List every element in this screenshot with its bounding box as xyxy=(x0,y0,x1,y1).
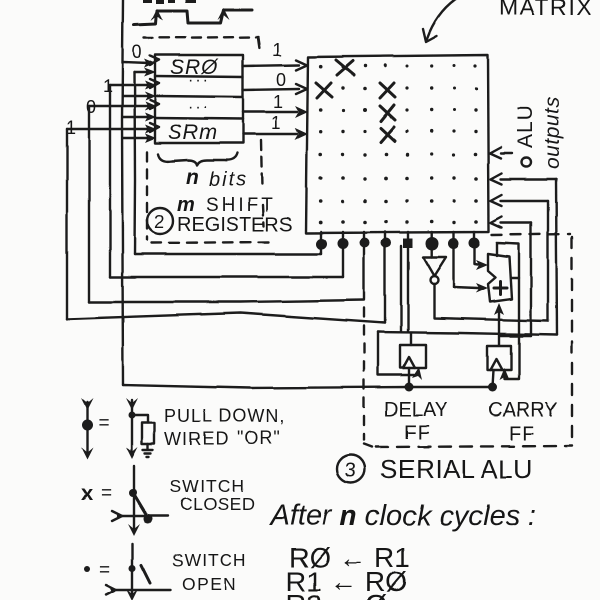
svg-text:SWITCH: SWITCH xyxy=(170,476,245,496)
svg-text:···: ··· xyxy=(188,72,210,89)
wire delay FF top connection xyxy=(410,333,412,345)
svg-text:ALU: ALU xyxy=(514,104,537,148)
wire feedback col1 vertical x=134.5 xyxy=(133,72,136,254)
svg-text:0: 0 xyxy=(276,70,286,90)
pull-down dot col1 xyxy=(320,232,322,254)
ground xyxy=(143,450,153,457)
switch blade closed xyxy=(133,493,148,518)
wire SR input row4 from x=67 xyxy=(67,128,149,130)
wire into SR row4 data xyxy=(123,137,148,139)
svg-text:SRm: SRm xyxy=(168,121,218,144)
wire SR input row2 from x=110 xyxy=(110,84,149,86)
matrix switch closed X row3 col4 xyxy=(380,105,395,121)
carry D input arrow xyxy=(499,368,509,380)
svg-text:=: = xyxy=(98,413,109,434)
svg-text:outputs: outputs xyxy=(541,97,564,169)
ALU output arrow into matrix row5 xyxy=(490,147,512,158)
wire into SR row1 data xyxy=(135,71,149,73)
cut-off text remnant top edge xyxy=(143,0,196,4)
wire feedback loop col3 to SR row3 xyxy=(89,300,364,302)
wire carry FF Q to adder carry-in xyxy=(498,310,500,345)
wire clock rail to FF clocks y=387 xyxy=(123,385,493,388)
svg-text:DELAY: DELAY xyxy=(384,399,448,421)
wire carry FF clock xyxy=(492,370,493,387)
svg-text:···: ··· xyxy=(188,99,210,116)
legend pulldown symbol left xyxy=(86,402,88,455)
pull-down dot col8 xyxy=(473,232,475,263)
svg-text:=: = xyxy=(99,560,110,581)
dashed box serial ALU right xyxy=(571,237,573,443)
shift register box xyxy=(155,55,243,143)
wire SR output row3 to matrix xyxy=(243,111,297,113)
wire feedback loop col2 to SR row2 xyxy=(110,276,343,278)
carry FF clock wedge xyxy=(490,359,502,370)
svg-text:1: 1 xyxy=(103,76,113,96)
wire clock main vertical x=123 xyxy=(122,0,123,385)
svg-text:0: 0 xyxy=(86,97,96,117)
circled 2 xyxy=(147,208,173,234)
wire delay D feed xyxy=(378,332,414,375)
svg-text:R2 ← Ø: R2 ← Ø xyxy=(286,589,387,600)
SR row separator 2 xyxy=(155,96,243,97)
svg-text:2: 2 xyxy=(154,212,164,232)
switch matrix box xyxy=(306,55,489,233)
carry FF U4 xyxy=(487,346,511,370)
wire feedback loop col4 to SR row4 xyxy=(67,313,385,323)
legend open-dot symbol xyxy=(84,566,90,572)
svg-text:CLOSED: CLOSED xyxy=(180,494,255,514)
label o ALU outputs xyxy=(522,158,531,167)
svg-text:1: 1 xyxy=(273,92,283,112)
delay D input arrow xyxy=(412,367,422,380)
dashed box region 2 right xyxy=(258,38,260,52)
resistor R1 xyxy=(132,415,148,449)
brace under SR box xyxy=(158,153,237,165)
switch feed wire xyxy=(118,515,168,517)
dashed box serial ALU top xyxy=(492,234,570,235)
legend pulldown circuit xyxy=(131,400,133,452)
wire feedback loop col1 to SR row1 xyxy=(135,253,322,255)
annotation arrow to matrix xyxy=(427,0,455,39)
svg-text:After n clock cycles :: After n clock cycles : xyxy=(268,500,536,532)
ALU output arrow into matrix row7 xyxy=(491,195,548,206)
wire SR output row4 to matrix xyxy=(243,133,297,135)
wire carry feedback vertical x=531 xyxy=(530,223,532,336)
SR row separator 3 xyxy=(155,118,243,119)
wire carry Q to matrix row8 loop xyxy=(500,335,531,337)
svg-text:=: = xyxy=(101,483,112,504)
clock edge arrow 1 xyxy=(151,9,163,21)
pull-down dot col4 xyxy=(384,232,386,323)
svg-text:1: 1 xyxy=(271,113,281,133)
svg-text:0: 0 xyxy=(132,42,142,62)
svg-text:SWITCH: SWITCH xyxy=(172,550,247,570)
wire delay line horizontal y=333 xyxy=(378,332,557,335)
ALU output arrow into matrix row6 xyxy=(491,173,556,184)
svg-text:FF: FF xyxy=(404,422,430,444)
switch feed wire xyxy=(112,589,170,591)
wire feedback col4 vertical x=67 xyxy=(66,129,68,319)
dashed box serial ALU bottom xyxy=(376,446,572,447)
dashed box region 2 top xyxy=(144,37,258,38)
switch blade open xyxy=(141,565,150,583)
SR row separator 1 xyxy=(155,76,243,77)
wire adder sum output stub xyxy=(512,277,519,279)
svg-text:"OR": "OR" xyxy=(237,428,281,448)
pull-down dot col5 xyxy=(407,232,409,332)
SR clock chevron row3 xyxy=(150,100,159,109)
ALU output arrow into matrix row8 xyxy=(491,217,531,228)
wire feedback col3 vertical x=89 xyxy=(88,106,90,302)
delay FF clock wedge xyxy=(403,357,415,368)
wire into SR row2 data xyxy=(123,95,148,97)
wire SR input row3 from x=89 xyxy=(89,105,149,107)
svg-text:WIRED: WIRED xyxy=(164,429,229,449)
wire not feedback vertical x=548 xyxy=(547,201,549,321)
svg-text:n: n xyxy=(186,166,199,189)
switch open symbol xyxy=(131,544,133,594)
dashed box region 2 bottom xyxy=(151,242,270,243)
wire into SR row3 data xyxy=(123,116,148,118)
dashed box region 2 left xyxy=(146,152,148,240)
svg-text:x: x xyxy=(81,482,93,505)
inverter U1 xyxy=(423,257,446,276)
adder plus sign xyxy=(494,282,507,295)
svg-text:REGISTERS: REGISTERS xyxy=(177,214,293,236)
svg-text:SERIAL ALU: SERIAL ALU xyxy=(380,454,533,484)
matrix switch closed X row2 col1 xyxy=(316,83,332,98)
matrix switch closed X row1 col2 xyxy=(336,60,354,75)
pull-down dot col7 xyxy=(452,232,454,287)
svg-text:bits: bits xyxy=(209,169,248,191)
svg-text:CARRY: CARRY xyxy=(488,399,558,421)
switch closed symbol xyxy=(133,466,135,528)
wire col7 to adder input B xyxy=(454,287,479,288)
wire inverter output xyxy=(434,284,548,321)
circled 3 xyxy=(337,455,365,483)
svg-text:m: m xyxy=(177,194,195,216)
clock waveform xyxy=(134,10,252,25)
wire SR input row1 from clock bus xyxy=(123,62,149,63)
delay FF U3 xyxy=(400,345,426,368)
wire SR output row1 to matrix xyxy=(243,65,299,66)
wire feedback col2 vertical x=110 xyxy=(109,85,111,277)
wire delay FF clock xyxy=(408,368,410,387)
svg-text:MATRIX: MATRIX xyxy=(499,0,593,20)
svg-text:1: 1 xyxy=(272,40,282,60)
matrix switch closed X row2 col4 xyxy=(380,83,395,98)
wire adder carry-out loop xyxy=(497,243,519,379)
svg-text:FF: FF xyxy=(509,423,535,445)
adder U2 xyxy=(488,254,512,302)
pull-down dot col6 xyxy=(431,232,433,257)
svg-text:OPEN: OPEN xyxy=(182,574,238,594)
pull-down dot col3 xyxy=(363,232,365,299)
pull-down dot col2 xyxy=(342,232,344,277)
svg-text:SHIFT: SHIFT xyxy=(206,195,276,216)
wire SR output row2 to matrix xyxy=(243,89,299,90)
dashed box serial ALU left xyxy=(363,308,365,440)
wire col8 to adder input A xyxy=(475,263,479,265)
SR clock chevron row2 xyxy=(150,79,159,88)
svg-text:PULL DOWN,: PULL DOWN, xyxy=(164,406,285,426)
wire parallel stub col5 xyxy=(400,246,402,331)
wire sum feedback vertical x=556 xyxy=(556,179,557,335)
svg-text:3: 3 xyxy=(345,460,356,482)
SR clock chevron row4 xyxy=(150,123,159,132)
SR clock chevron row1 xyxy=(150,56,159,65)
matrix switch closed X row4 col4 xyxy=(381,127,395,142)
clock edge arrow 2 xyxy=(218,8,230,20)
matrix crosspoint dot grid xyxy=(319,64,478,225)
